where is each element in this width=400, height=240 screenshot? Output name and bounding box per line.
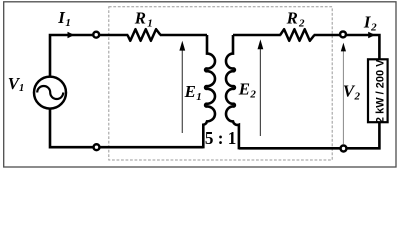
svg-text:I2: I2: [363, 13, 377, 34]
svg-text:E2: E2: [238, 79, 257, 100]
terminal node top-left: [93, 32, 99, 38]
wire: secondary bottom rail: [239, 121, 380, 148]
svg-text:E1: E1: [184, 82, 202, 103]
primary winding E1 coil: [203, 35, 215, 148]
svg-text:R1: R1: [134, 9, 153, 30]
svg-text:I1: I1: [57, 8, 71, 29]
svg-text:V1: V1: [8, 74, 24, 94]
svg-text:5 : 1: 5 : 1: [205, 128, 236, 148]
resistor R1: [128, 29, 161, 41]
load box 2kW/200V: [368, 59, 388, 123]
arrow E1: [179, 41, 185, 133]
secondary winding E2 coil: [226, 35, 239, 149]
resistor R2: [280, 29, 314, 41]
svg-text:V2: V2: [343, 81, 361, 102]
terminal node bottom-left: [94, 144, 100, 150]
svg-text:R2: R2: [286, 9, 305, 30]
current arrow I1: [68, 32, 75, 38]
voltage source V1: [34, 77, 66, 109]
arrow E2: [258, 39, 264, 136]
wire: primary bottom rail: [50, 109, 203, 147]
svg-text:2 kW / 200 V: 2 kW / 200 V: [375, 59, 387, 123]
terminal node bottom-right: [341, 146, 347, 152]
wire: primary top rail: [50, 35, 207, 77]
current arrow I2: [368, 32, 375, 38]
terminal node top-right: [340, 31, 346, 37]
dashed transformer boundary box: [109, 7, 332, 160]
arrow V2: [341, 43, 346, 144]
wire: secondary top rail: [233, 35, 379, 60]
